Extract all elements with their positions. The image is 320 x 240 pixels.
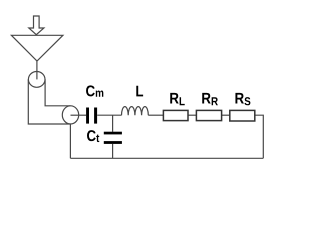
wire: left tangent down and right to capsule bottom: [28, 79, 70, 124]
wire: RR to RS: [222, 114, 230, 116]
label RS: [235, 93, 250, 105]
wire: capsule center to Cm: [71, 114, 87, 116]
horn / funnel triangle: [11, 35, 63, 61]
wire: capsule bottom down to bottom rail: [69, 124, 71, 159]
wire: Ct bottom plate down to bottom rail: [112, 144, 114, 158]
wire: inductor to RL: [148, 114, 163, 116]
resistor RR box: [196, 110, 221, 120]
wire: bottom rail: [70, 157, 263, 159]
wire: RS right then down to bottom: [255, 115, 263, 158]
wire: Cm to junction to inductor: [97, 114, 121, 116]
resistor RS box: [230, 110, 255, 121]
label RR: [202, 93, 218, 105]
microphone capsule circle: [62, 106, 78, 124]
label Ct: [87, 130, 99, 142]
wire: RL to RR: [188, 114, 196, 116]
capacitor Ct plates: [104, 132, 122, 135]
capacitor Cm plates: [86, 108, 89, 124]
inductor L coil: [122, 107, 149, 116]
node: Ct branch junction: [112, 115, 114, 132]
label RL: [170, 93, 184, 105]
label Cm: [86, 85, 103, 96]
wire: funnel vertex to pulley center: [36, 61, 38, 79]
sound input block arrow: [29, 16, 44, 35]
label L: [136, 86, 143, 97]
resistor RL box: [163, 110, 188, 120]
pulley circle: [28, 72, 45, 88]
wire: right tangent down and right to capsule top: [45, 79, 70, 105]
